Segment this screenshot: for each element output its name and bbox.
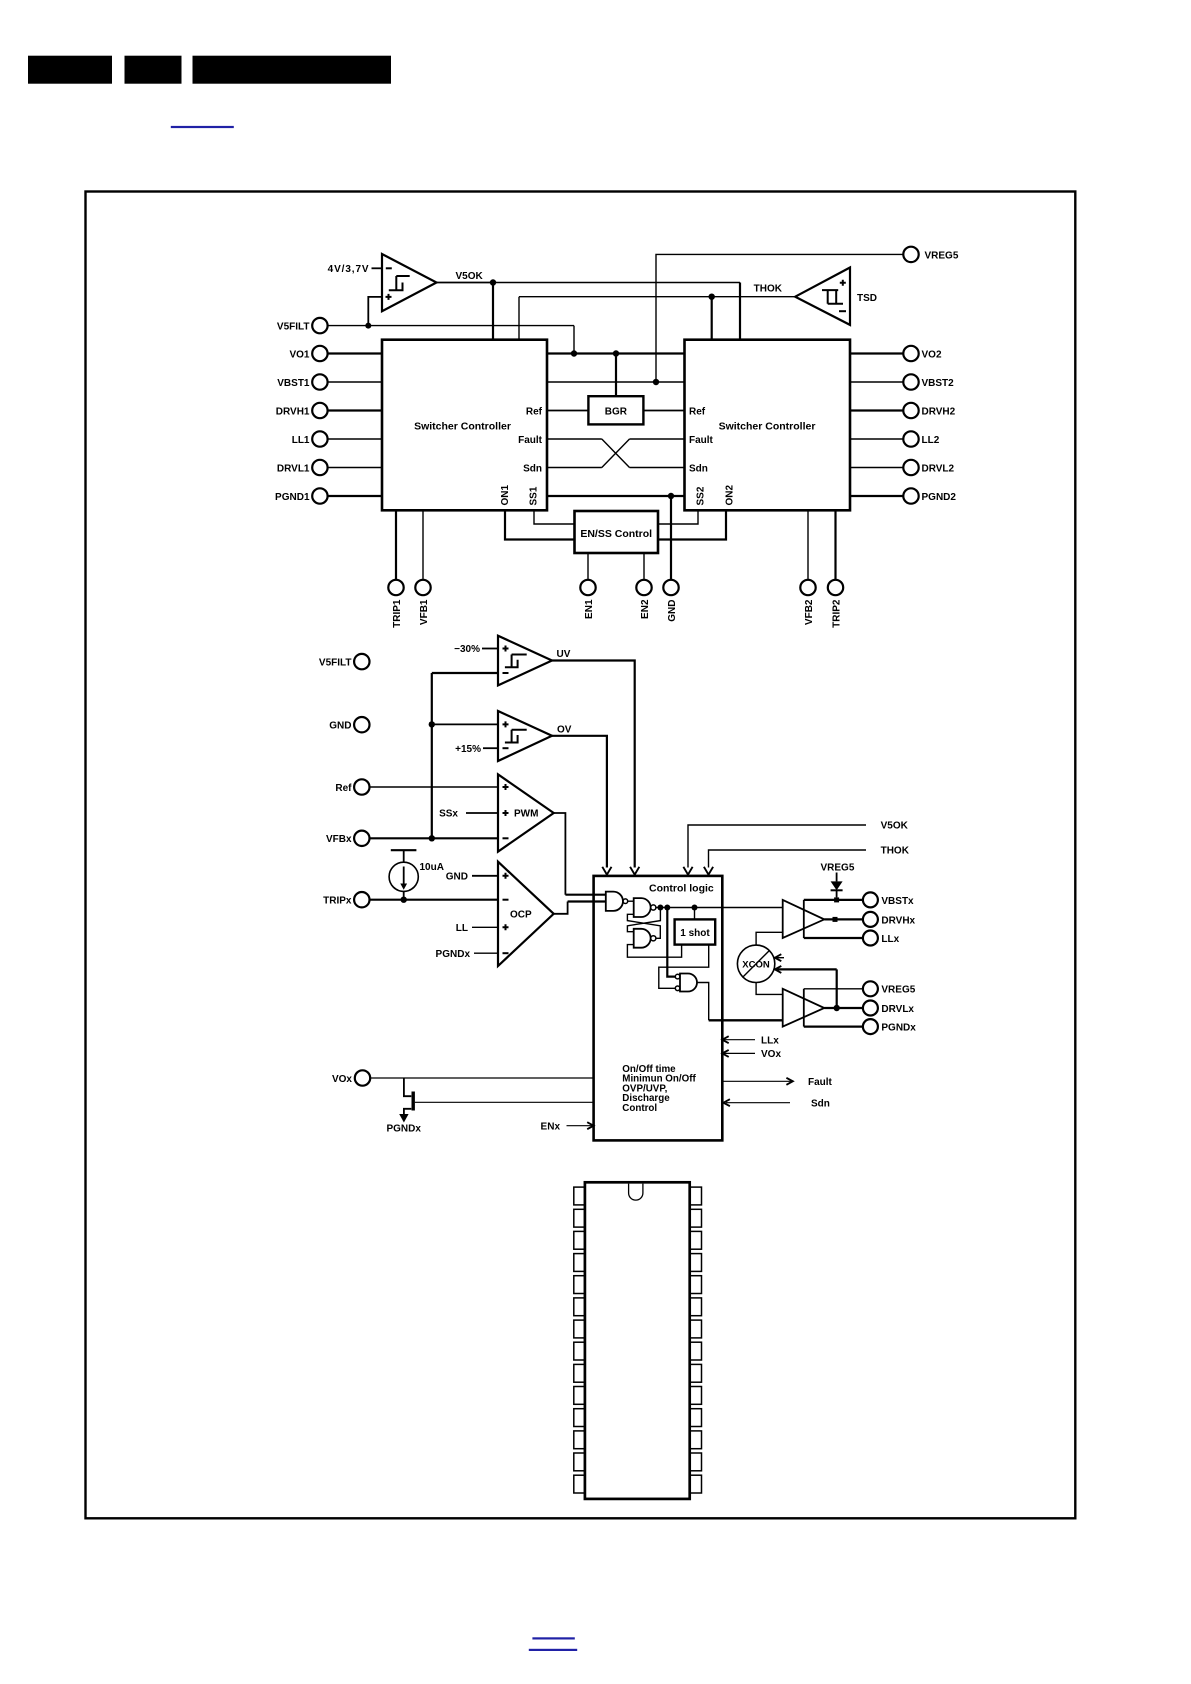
svg-text:PGNDx: PGNDx (436, 949, 471, 960)
svg-text:DRVH2: DRVH2 (922, 406, 956, 417)
svg-text:GND: GND (667, 600, 678, 622)
pin DRVH2 (850, 403, 956, 418)
pin DRVHx (863, 912, 916, 927)
pin DRVL1 (277, 460, 382, 475)
svg-text:LLx: LLx (761, 1035, 779, 1046)
wire SS internal net (547, 495, 685, 497)
pin PGND2 (850, 488, 956, 503)
wire Ref1-BGR (547, 410, 588, 412)
pin EN2 (636, 553, 651, 619)
XCON block (737, 945, 774, 982)
wire TRIPx net (370, 899, 499, 901)
wire LLx (804, 937, 863, 939)
junction SS-GND (668, 493, 674, 499)
arrow Sdn in (724, 1098, 830, 1109)
arrow XCON in 1 (775, 954, 784, 961)
svg-text:VO1: VO1 (289, 349, 309, 360)
label SSx (439, 809, 498, 820)
arrow Fault out (722, 1077, 832, 1088)
svg-text:SS2: SS2 (695, 486, 706, 505)
comparator UV (498, 636, 552, 686)
svg-text:DRVL1: DRVL1 (277, 463, 310, 474)
redaction bar 1 (28, 56, 112, 84)
svg-text:XCON: XCON (742, 960, 770, 971)
junction diode-VBSTx (834, 897, 839, 902)
wire one-shot output to nand4 (659, 945, 709, 989)
svg-text:Fault: Fault (518, 435, 543, 446)
wire PGNDx (804, 1025, 863, 1027)
switcher controller 1 (382, 340, 547, 511)
svg-text:DRVHx: DRVHx (881, 915, 915, 926)
svg-text:EN1: EN1 (584, 599, 595, 619)
pin DRVH1 (276, 403, 382, 418)
pin GND (663, 580, 678, 622)
diode VREG5 (831, 873, 843, 898)
wire SS2 (658, 510, 698, 524)
svg-text:VREG5: VREG5 (925, 250, 959, 261)
wire V5OK input (688, 825, 866, 868)
pin TRIP1 (388, 510, 403, 628)
svg-text:GND: GND (329, 721, 351, 732)
wire V5OK output (437, 282, 494, 284)
pin VBSTx (863, 892, 914, 907)
pin VREG5x (863, 981, 916, 996)
BGR block (588, 396, 643, 424)
svg-text:Switcher Controller: Switcher Controller (719, 421, 816, 433)
wire ON2 (658, 510, 726, 539)
svg-text:−30%: −30% (454, 644, 480, 655)
wire THOK to controller 2 (711, 297, 713, 340)
wire V5FILT net (328, 326, 574, 354)
package body (585, 1182, 690, 1499)
wire VBST internal net (547, 381, 685, 383)
svg-text:PGND1: PGND1 (275, 492, 310, 503)
svg-text:VFBx: VFBx (326, 834, 352, 845)
wire V5OK net to controller 2 (493, 282, 740, 284)
wire latch cross B (627, 914, 660, 938)
svg-text:PWM: PWM (514, 809, 538, 820)
junction VO-BGR (613, 350, 619, 356)
svg-text:SSx: SSx (439, 809, 458, 820)
wire VO internal net (547, 352, 685, 354)
driver low (783, 989, 825, 1027)
svg-text:PGNDx: PGNDx (881, 1023, 916, 1034)
svg-text:ENx: ENx (541, 1121, 561, 1132)
wire XCON bottom (756, 983, 783, 995)
svg-text:+15%: +15% (455, 744, 481, 755)
wire Fault-Sdn crossover (547, 439, 685, 468)
wire one-shot input stub (694, 908, 696, 920)
package pins left and right (574, 1187, 702, 1493)
wire SS1 (534, 510, 575, 524)
pin GNDx (329, 717, 369, 732)
arrow LLx feedback (722, 1035, 779, 1046)
svg-text:Fault: Fault (808, 1077, 833, 1088)
pin VOx (332, 1070, 370, 1085)
comparator PWM (498, 774, 554, 851)
driver high (783, 900, 825, 938)
label LL ocp (456, 923, 498, 934)
pin PGNDx (863, 1019, 916, 1034)
pin VBST2 (850, 374, 954, 389)
svg-text:V5FILT: V5FILT (319, 658, 352, 669)
pin Ref (335, 779, 369, 794)
nand gate 4 (675, 974, 697, 992)
wire nand4 output (697, 983, 709, 1021)
arrow OV into control logic (602, 867, 611, 875)
nand gate 1 (606, 892, 628, 911)
pin DRVLx (863, 1001, 915, 1016)
label -30% (454, 644, 498, 655)
svg-text:THOK: THOK (881, 846, 910, 857)
pin VREG5 (903, 247, 959, 262)
svg-text:1 shot: 1 shot (680, 928, 710, 939)
pin DRVL2 (850, 460, 955, 475)
junction OV plus (429, 721, 435, 727)
svg-text:VFB1: VFB1 (419, 599, 430, 625)
link underline top (171, 126, 234, 128)
svg-text:THOK: THOK (754, 284, 783, 295)
junction DRVHx (833, 917, 838, 922)
pin EN1 (580, 553, 595, 619)
wire VBSTx (804, 899, 863, 901)
junction one-shot tap (692, 905, 698, 911)
pin VO1 (289, 346, 382, 361)
comparator OCP (498, 862, 554, 966)
package notch (629, 1184, 643, 1201)
comparator TSD (795, 268, 850, 325)
wire VREG5 net (656, 254, 903, 382)
wire nand2 output net to driver (656, 907, 783, 909)
svg-text:EN/SS Control: EN/SS Control (580, 528, 652, 540)
svg-text:VFB2: VFB2 (804, 599, 815, 625)
svg-text:Control logic: Control logic (649, 883, 714, 895)
wire nand2 to nand4 (667, 908, 675, 977)
wire OV plus input (432, 723, 498, 725)
svg-text:VBSTx: VBSTx (881, 896, 914, 907)
svg-text:ON1: ON1 (500, 485, 511, 506)
wire GND stub (670, 496, 672, 580)
label PGNDx ocp (436, 949, 498, 960)
wire THOK input (709, 850, 867, 868)
arrow THOK into control logic (704, 867, 713, 875)
wire THOK net (519, 297, 795, 340)
wire VFBx to UV/OV (432, 673, 498, 838)
junction V5OK (490, 279, 496, 285)
wire latch cross A (627, 908, 660, 932)
wire OV output (552, 736, 607, 868)
link underline bottom 2 (529, 1649, 577, 1651)
svg-text:V5OK: V5OK (456, 271, 484, 282)
wire DRVHx (824, 918, 862, 920)
svg-text:OV: OV (557, 725, 572, 736)
redaction bar 2 (125, 56, 182, 84)
arrow VOx feedback (722, 1049, 781, 1060)
pin PGND1 (275, 488, 382, 503)
wire V5OK to controller 1 (492, 283, 494, 340)
pin VFB2 (800, 510, 815, 625)
redaction bar 3 (193, 56, 392, 84)
EN/SS Control block (575, 511, 659, 553)
wire OCP output to NAND (554, 902, 568, 914)
junction THOK (709, 294, 715, 300)
wire nand3 input from one-shot (627, 945, 681, 958)
svg-text:VOx: VOx (332, 1074, 352, 1085)
pin VBST1 (277, 374, 382, 389)
wire VREG5x (804, 988, 863, 990)
svg-text:BGR: BGR (605, 407, 628, 418)
junction TRIPx (401, 897, 407, 903)
svg-text:Fault: Fault (689, 435, 714, 446)
svg-text:Ref: Ref (526, 407, 543, 418)
svg-text:ON2: ON2 (725, 485, 736, 506)
wire BGR-Ref2 (643, 410, 684, 412)
svg-text:Switcher Controller: Switcher Controller (414, 421, 511, 433)
arrow XCON in 2 (775, 966, 837, 1008)
svg-text:V5FILT: V5FILT (277, 322, 310, 333)
svg-text:VO2: VO2 (922, 349, 942, 360)
svg-text:LL: LL (456, 923, 468, 934)
control logic box (594, 876, 723, 1141)
svg-text:Sdn: Sdn (689, 464, 708, 475)
wire PWM output to NAND (554, 813, 566, 895)
junction VREG5-VBST (653, 379, 659, 385)
svg-text:V5OK: V5OK (881, 821, 909, 832)
junction V5FILT comp (365, 323, 371, 329)
svg-text:DRVH1: DRVH1 (276, 406, 310, 417)
arrow V5OK into control logic (683, 867, 692, 875)
pin TRIP2 (828, 510, 843, 628)
svg-text:TRIP1: TRIP1 (392, 599, 403, 628)
wire BGR supply (615, 354, 617, 397)
switcher controller 2 (685, 340, 851, 511)
pin LL1 (292, 431, 382, 446)
svg-text:DRVL2: DRVL2 (922, 463, 955, 474)
svg-text:Sdn: Sdn (523, 464, 542, 475)
comparator OV (498, 711, 552, 761)
pin V5FILTx (319, 654, 370, 669)
wire comparator plus input (368, 297, 382, 326)
current source 10uA (389, 850, 444, 900)
svg-text:VBST2: VBST2 (922, 378, 955, 389)
junction V5FILT VO net (571, 350, 577, 356)
wire UV output (552, 661, 635, 868)
arrow ENx (541, 1121, 594, 1132)
figure border frame (86, 192, 1076, 1519)
wire transistor gate (415, 1101, 594, 1103)
svg-text:VREG5: VREG5 (821, 863, 855, 874)
nand gate 3 (634, 929, 656, 948)
svg-text:Ref: Ref (689, 407, 706, 418)
svg-text:VBST1: VBST1 (277, 378, 310, 389)
wire VOx net (370, 1077, 593, 1079)
pin VO2 (850, 346, 942, 361)
svg-text:LL2: LL2 (922, 435, 940, 446)
nand gate 2 (634, 898, 656, 917)
one shot block (675, 919, 716, 944)
svg-text:PGNDx: PGNDx (386, 1124, 421, 1135)
link underline bottom 1 (532, 1637, 574, 1639)
svg-text:UV: UV (557, 649, 571, 660)
pin VFBx (326, 831, 370, 846)
svg-text:4V/3,7V: 4V/3,7V (328, 264, 370, 275)
arrow UV into control logic (630, 867, 639, 875)
wire driver high rail (803, 900, 805, 938)
label GND ocp (446, 872, 498, 883)
svg-text:Control: Control (622, 1103, 657, 1114)
svg-text:10uA: 10uA (420, 862, 444, 873)
svg-text:TRIP2: TRIP2 (832, 599, 843, 628)
comparator V5OK (382, 254, 437, 311)
pin LLx (863, 931, 900, 946)
wire nand1-nand2 (628, 900, 634, 902)
junction nand2 out a (657, 905, 663, 911)
svg-text:EN2: EN2 (640, 599, 651, 619)
junction VFBx (429, 835, 435, 841)
svg-text:Sdn: Sdn (811, 1098, 830, 1109)
svg-text:OCP: OCP (510, 910, 532, 921)
svg-text:TSD: TSD (857, 293, 877, 304)
junction DRVLx (834, 1005, 840, 1011)
pin V5FILT (277, 318, 328, 333)
svg-text:Ref: Ref (335, 783, 352, 794)
svg-text:LL1: LL1 (292, 435, 310, 446)
pin TRIPx (323, 892, 369, 907)
wire ON1 (505, 510, 575, 539)
svg-text:GND: GND (446, 872, 468, 883)
svg-text:VOx: VOx (761, 1049, 781, 1060)
transistor discharge (386, 1078, 421, 1135)
pin LL2 (850, 431, 940, 446)
label control functions (622, 1064, 696, 1114)
pin VFB1 (415, 510, 430, 625)
svg-text:SS1: SS1 (529, 486, 540, 505)
label 4V/3,7V (328, 264, 382, 275)
wire driver low input (709, 1019, 783, 1021)
svg-text:DRVLx: DRVLx (881, 1004, 914, 1015)
svg-text:PGND2: PGND2 (922, 492, 957, 503)
svg-text:VREG5: VREG5 (881, 985, 915, 996)
wire driver low rail (803, 989, 805, 1027)
svg-text:TRIPx: TRIPx (323, 896, 352, 907)
junction nand2 out b (664, 905, 670, 911)
wire XCON top (756, 932, 783, 945)
wire Ref input (370, 786, 499, 788)
wire DRVLx (824, 1007, 862, 1009)
svg-text:LLx: LLx (881, 934, 899, 945)
label +15% (455, 744, 498, 755)
wire VFBx net (370, 837, 499, 839)
